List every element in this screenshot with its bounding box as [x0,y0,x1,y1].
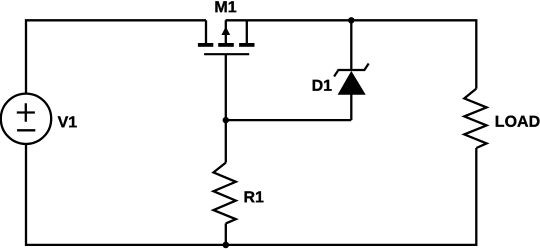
svg-text:R1: R1 [243,189,264,206]
wire: top rail right segment with right corner (M1 source to LOAD top) [226,20,477,88]
V1 plus sign [17,103,35,122]
wire: D1 cathode lead up to top rail [350,20,352,70]
transistor M1 drain bar [198,43,213,47]
transistor M1 body stub [225,20,227,44]
transistor M1 body arrow (points up) [221,27,230,35]
svg-text:V1: V1 [58,114,78,131]
svg-text:D1: D1 [312,78,333,95]
wire: node to D1 anode (horizontal run) [226,119,351,121]
V1 minus sign [17,129,35,131]
wire: left rail lower + bottom rail + right rail lower (V1 bottom to LOAD bottom) [26,144,476,245]
svg-text:M1: M1 [214,0,236,16]
wire: D1 anode lead (vertical) [350,94,352,120]
resistor LOAD zigzag [464,89,486,148]
wire: top rail left segment with left corner (V1 top to M1 drain) [26,20,206,93]
zener diode D1 cathode bar with bent zener ends [334,64,369,77]
node: D1 / top rail junction dot [348,17,354,23]
wire: R1 bottom lead to bottom rail [225,223,227,245]
resistor R1 zigzag [214,163,236,224]
transistor M1 gate plate [204,53,249,55]
transistor M1 source bar [239,43,254,47]
transistor M1 drain stub [205,20,207,44]
node: gate / R1 / D1 junction dot [223,117,229,123]
voltage source V1 circle [1,94,51,144]
svg-text:LOAD: LOAD [495,114,540,131]
transistor M1 source stub [246,20,248,44]
zener diode D1 triangle (anode, points up) [338,71,366,95]
wire: M1 gate lead down through node to R1 top [225,54,227,162]
node: R1 / bottom rail junction dot [223,242,230,249]
transistor M1 body bar [218,43,234,47]
